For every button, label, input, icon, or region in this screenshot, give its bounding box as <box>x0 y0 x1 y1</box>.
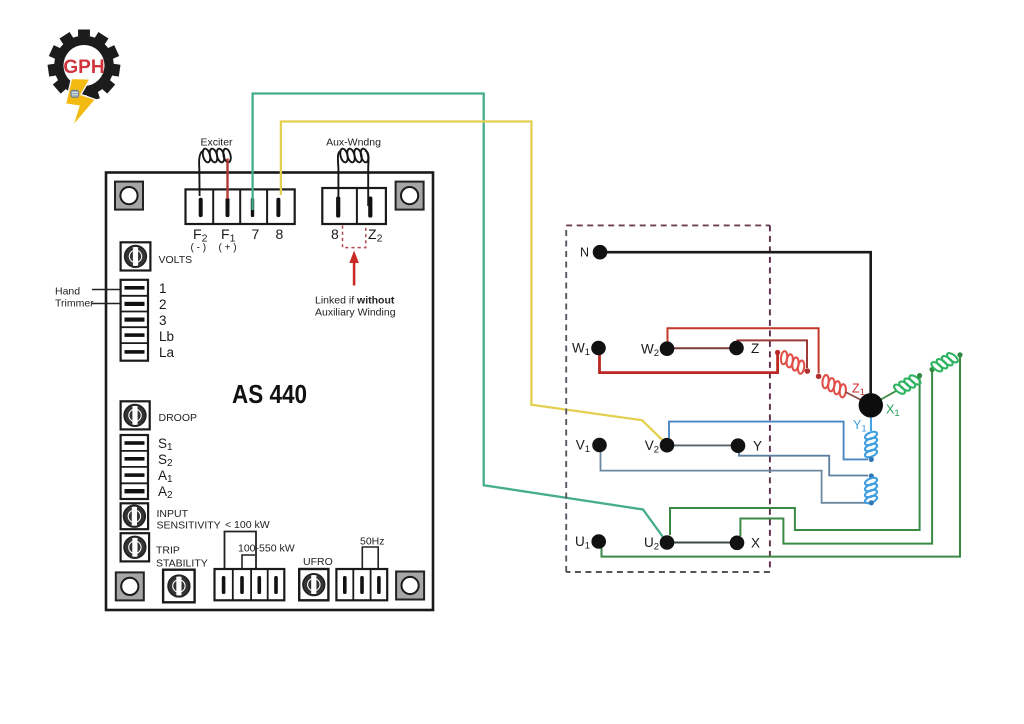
bracket 100-550 kW <box>242 555 255 569</box>
node V1 <box>592 438 607 453</box>
svg-text:X: X <box>751 536 760 551</box>
svg-text:STABILITY: STABILITY <box>156 558 208 570</box>
wire: Z to red winding junction A (maroon) <box>738 340 808 368</box>
svg-text:VOLTS: VOLTS <box>159 254 193 266</box>
strip labels 1 2 3 Lb La <box>159 281 175 360</box>
green coil X-phase part2 <box>929 349 961 376</box>
green junction C <box>957 352 962 357</box>
wire: V1 to blue coil2 bottom <box>601 452 869 503</box>
svg-text:AS 440: AS 440 <box>232 379 307 409</box>
wire: U2 to green coil1 junction <box>670 378 920 535</box>
blue junction 1 <box>869 457 874 462</box>
green coil X-phase part1 <box>891 371 923 398</box>
exciter coil <box>199 148 232 196</box>
wire: N to star point (black) <box>600 252 871 394</box>
wire: Y to blue coil2 top <box>739 452 868 476</box>
terminal block 8 Z2 <box>322 188 386 224</box>
svg-text:Y: Y <box>753 439 762 454</box>
hand trimmer leader lines <box>92 289 122 291</box>
wire: W2 to red winding junction B (dark red) <box>668 328 819 373</box>
INPUT SENSITIVITY knob <box>121 503 149 529</box>
VOLTS knob <box>121 242 151 270</box>
svg-text:TRIP: TRIP <box>156 545 180 557</box>
svg-text:La: La <box>159 345 175 360</box>
svg-text:DROOP: DROOP <box>159 412 198 424</box>
bottom terminal block 4 cells <box>215 569 285 600</box>
stator dashed box <box>566 225 770 572</box>
node Y <box>731 438 746 453</box>
wire: V2 to blue coil1 bottom <box>669 422 868 460</box>
svg-text:8: 8 <box>276 226 284 242</box>
exciter red lead to F1 <box>226 159 228 200</box>
svg-text:( - ): ( - ) <box>191 243 207 254</box>
AVR box AS440 <box>106 173 433 611</box>
aux winding coil <box>338 148 370 207</box>
svg-text:UFRO: UFRO <box>303 556 333 568</box>
blue coil Y-phase part2 <box>864 476 878 505</box>
wire: star to blue coil1 <box>870 414 872 431</box>
svg-text:SENSITIVITY: SENSITIVITY <box>157 520 221 532</box>
blue junction 2 <box>869 473 874 478</box>
green junction B <box>930 367 935 372</box>
red arrow up <box>349 251 359 286</box>
node N <box>593 245 608 260</box>
svg-text:< 100 kW: < 100 kW <box>225 519 270 531</box>
winding coil Z-phase part2 (red) <box>817 373 850 400</box>
node X <box>730 536 745 551</box>
svg-text:100-550 kW: 100-550 kW <box>238 543 295 555</box>
wire: X to green coil2 start <box>740 372 932 544</box>
svg-text:Lb: Lb <box>159 329 174 344</box>
GPH bolt emblem chip <box>71 90 79 97</box>
node Z <box>729 341 744 356</box>
wire: W1 to red winding (thick red) <box>600 354 778 373</box>
svg-text:8: 8 <box>331 226 339 242</box>
GPH logo gear <box>48 30 121 102</box>
mount hole top-left <box>115 182 143 210</box>
svg-text:Exciter: Exciter <box>200 137 233 149</box>
node V2 <box>660 438 675 453</box>
red winding start hook <box>775 350 780 355</box>
blue junction 3 <box>869 500 874 505</box>
mount hole top-right <box>396 182 424 210</box>
terminal labels 8 Z2 <box>331 226 383 245</box>
GPH lightning bolt <box>66 79 96 127</box>
svg-text:7: 7 <box>252 226 260 242</box>
svg-text:50Hz: 50Hz <box>360 536 385 548</box>
svg-text:Linked if without: Linked if without <box>315 295 395 307</box>
star point node <box>859 393 883 417</box>
node U2 <box>660 535 675 550</box>
terminal strip S1 S2 A1 A2 <box>121 435 148 499</box>
wire: terminal 8 to V2 (yellow) <box>281 122 666 444</box>
terminal block F2 F1 7 8 <box>186 189 295 224</box>
bracket 50Hz <box>362 547 378 569</box>
svg-text:Hand: Hand <box>55 286 80 298</box>
terminal labels F2 F1 7 8 <box>191 226 284 254</box>
UFRO knob <box>299 569 328 600</box>
junction A <box>805 368 811 374</box>
bottom terminal block 3 cells <box>336 569 387 600</box>
wire: star to green coil1 <box>879 391 897 401</box>
terminal strip 1 2 3 Lb La <box>121 280 148 361</box>
svg-text:1: 1 <box>159 281 167 296</box>
wire: V2 to Y link <box>667 444 738 446</box>
mount hole bottom-right <box>396 572 424 600</box>
svg-text:Z: Z <box>751 341 759 356</box>
mount hole bottom-left <box>116 572 144 600</box>
svg-text:N: N <box>580 246 589 260</box>
wire: terminal 7 to U2 (teal) <box>253 94 666 541</box>
linked-if dashed red bracket <box>343 226 366 248</box>
node U1 <box>591 534 606 549</box>
svg-text:Trimmer: Trimmer <box>55 298 94 310</box>
wire: U1 to green coil2 end <box>602 356 961 557</box>
junction B <box>816 374 822 380</box>
svg-text:3: 3 <box>159 313 167 328</box>
wire: U2 to X link <box>667 542 737 544</box>
svg-text:INPUT: INPUT <box>157 508 189 520</box>
green junction A <box>917 373 922 378</box>
winding coil Z-phase part1 (red) <box>776 349 809 376</box>
blue coil Y-phase part1 <box>864 430 878 459</box>
node W2 <box>660 341 675 356</box>
DROOP knob <box>121 401 150 429</box>
svg-text:( + ): ( + ) <box>219 243 237 254</box>
wire: red coil to star <box>846 392 864 401</box>
bracket < 100 kW <box>225 532 257 570</box>
svg-text:Auxiliary Winding: Auxiliary Winding <box>315 307 396 319</box>
STABILITY knob <box>163 570 195 603</box>
node W1 <box>591 341 606 356</box>
svg-text:Aux-Wndng: Aux-Wndng <box>326 137 381 149</box>
svg-text:GPH: GPH <box>63 57 104 78</box>
TRIP knob <box>121 533 150 561</box>
wire: W2 to Z link <box>667 347 737 349</box>
strip labels S1 S2 A1 A2 <box>158 436 173 501</box>
svg-text:2: 2 <box>159 297 167 312</box>
